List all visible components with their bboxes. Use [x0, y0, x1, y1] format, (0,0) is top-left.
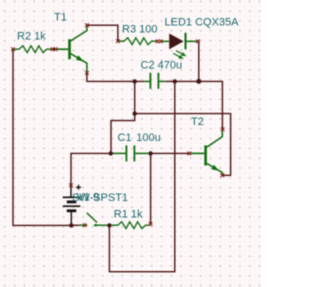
junction node D1	[133, 79, 137, 83]
wire battery minus to switch	[71, 224, 79, 226]
wire C1 left to battery plus	[71, 153, 111, 185]
wire top rail T1 collector to R3	[87, 25, 118, 41]
junction node D3	[196, 79, 201, 84]
pin T1 collector	[85, 23, 89, 27]
pin T1 base	[54, 47, 58, 51]
svg-text:R2 1k: R2 1k	[17, 30, 46, 42]
junction node D4	[133, 111, 137, 115]
resistor R2	[14, 46, 53, 53]
wire T1 emitter to C2 left	[87, 73, 145, 82]
wire R2 to T1 base	[52, 48, 55, 50]
svg-text:T1: T1	[54, 11, 67, 23]
svg-text:T2: T2	[191, 116, 204, 128]
pin R2 left	[11, 47, 15, 51]
wire D1 to D4 vertical	[134, 81, 136, 113]
wire step D4 to C1 left	[111, 114, 135, 154]
pin R3 left	[116, 39, 120, 43]
svg-text:100u: 100u	[136, 132, 160, 144]
wire battery bottom lead	[70, 211, 72, 225]
LED LED1	[161, 33, 198, 59]
wire C2 right to T2 collector	[165, 81, 223, 129]
pin T1 emitter	[85, 71, 89, 75]
capacitor C1	[111, 145, 151, 161]
pin T2 emitter	[221, 174, 225, 178]
junction node D2	[173, 79, 177, 83]
wire bottom loop D2 to switch-R1 node	[109, 81, 174, 271]
svg-text:R3 100: R3 100	[122, 23, 157, 35]
pin R1 right	[149, 222, 153, 226]
pin LED anode	[159, 40, 163, 44]
battery V1	[63, 185, 81, 211]
wire left rail from R2 to battery minus	[13, 49, 71, 225]
pin T2 base	[188, 152, 192, 156]
pin LED cathode	[196, 40, 200, 44]
wire y113 to T2 emitter	[135, 114, 231, 176]
wire R1 right riser	[150, 153, 152, 225]
svg-text:C1: C1	[118, 132, 132, 144]
wire battery top lead	[70, 185, 72, 197]
resistor R3	[118, 38, 157, 45]
capacitor C2	[145, 73, 165, 89]
pin battery plus	[69, 184, 73, 188]
pin R3 right	[156, 40, 160, 44]
wire D6 to T2 base	[151, 152, 190, 154]
pin switch left	[83, 223, 87, 227]
svg-text:LED1 CQX35A: LED1 CQX35A	[165, 17, 240, 29]
svg-text:C2 470u: C2 470u	[141, 59, 183, 71]
resistor R1	[110, 222, 150, 229]
svg-text:SW-SPST1: SW-SPST1	[72, 192, 128, 204]
junction node D8	[107, 223, 111, 227]
junction node D7	[69, 223, 73, 227]
transistor T2	[189, 130, 222, 174]
junction node D6	[148, 151, 152, 155]
wire LED cathode drop	[197, 41, 200, 81]
pin R2 right	[51, 47, 55, 51]
switch SW-SPST1	[79, 213, 109, 227]
pin T2 collector	[221, 128, 225, 132]
junction node D5	[109, 151, 113, 155]
svg-text:R1 1k: R1 1k	[114, 209, 143, 221]
transistor T1	[56, 26, 87, 72]
